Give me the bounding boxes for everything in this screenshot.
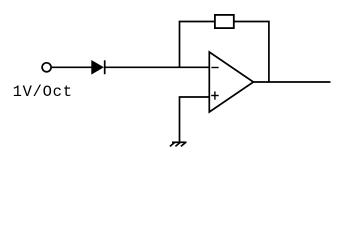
- wire: [105, 66, 210, 68]
- diode D1: [92, 60, 105, 74]
- resistor R1: [215, 15, 234, 28]
- svg-text:1V/Oct: 1V/Oct: [13, 83, 73, 101]
- ground: [170, 142, 187, 146]
- wire: [253, 81, 330, 83]
- wire: [180, 22, 215, 68]
- wire: [52, 66, 92, 68]
- wire: [234, 22, 269, 83]
- op-amp U1: [209, 52, 253, 112]
- terminal J1 (1V/Oct input): [42, 63, 51, 72]
- wire: [180, 97, 210, 142]
